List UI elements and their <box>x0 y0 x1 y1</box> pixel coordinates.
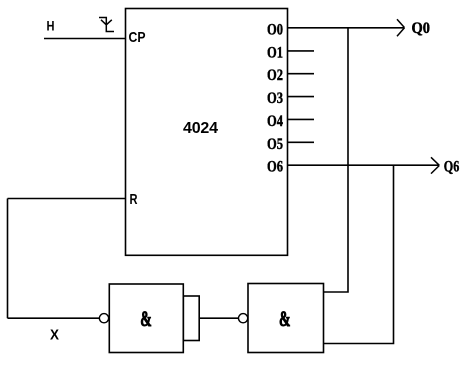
wire O1 stub <box>288 50 314 52</box>
wire Q0 branch down to gate U3 input <box>324 28 349 292</box>
svg-text:4024: 4024 <box>183 120 218 137</box>
svg-text:O1: O1 <box>267 44 283 61</box>
wire O0 output to Q0 <box>288 27 404 29</box>
wire O3 stub <box>288 96 314 98</box>
wire Q6 branch down to gate U3 input <box>324 165 394 343</box>
wire O6 output to Q6 <box>288 164 439 166</box>
NAND gate U3 body (right) <box>248 284 324 353</box>
inversion bubble of gate U3 output <box>239 314 248 323</box>
svg-text:CP: CP <box>129 29 146 46</box>
wire R feedback: box R pin to left rail <box>8 198 126 200</box>
wire H to CP input <box>44 38 126 40</box>
svg-text:X: X <box>50 327 59 344</box>
svg-text:O4: O4 <box>267 113 283 130</box>
svg-text:O2: O2 <box>267 67 283 84</box>
svg-text:R: R <box>130 191 138 208</box>
svg-text:&: & <box>140 306 152 331</box>
IC U1 4024 counter body <box>126 9 288 256</box>
svg-text:O3: O3 <box>267 90 283 107</box>
svg-text:Q0: Q0 <box>412 20 431 37</box>
svg-text:O6: O6 <box>267 159 283 176</box>
svg-text:&: & <box>279 306 291 331</box>
wire R feedback: left vertical rail <box>7 199 9 319</box>
wire X to gate U2 input bubble <box>8 317 100 319</box>
wire O5 stub <box>288 141 314 143</box>
wire gate U3 output to gate U2 <box>199 317 238 319</box>
wire O2 stub <box>288 73 314 75</box>
svg-text:O0: O0 <box>267 22 283 39</box>
NAND gate U2 body (left) <box>109 284 183 353</box>
svg-text:Q6: Q6 <box>444 158 460 175</box>
svg-text:O5: O5 <box>267 136 283 153</box>
arrow head Q6 <box>431 157 439 173</box>
output tab of gate U2 <box>183 296 199 341</box>
inversion bubble of gate U2 input <box>99 314 108 323</box>
svg-text:H: H <box>47 18 55 34</box>
falling-edge clock symbol <box>99 18 114 32</box>
arrow head Q0 <box>397 19 405 36</box>
wire O4 stub <box>288 118 314 120</box>
